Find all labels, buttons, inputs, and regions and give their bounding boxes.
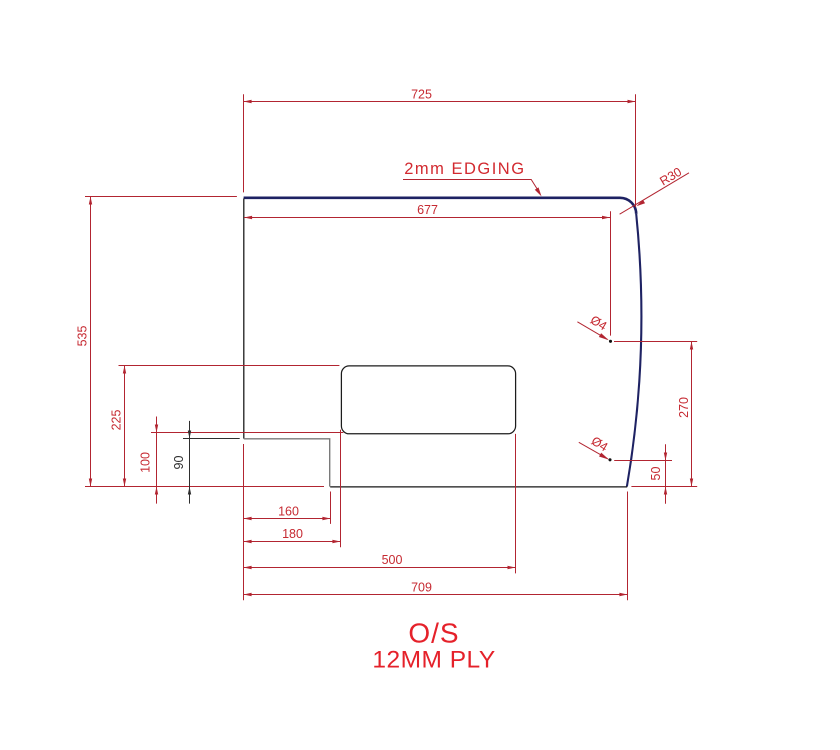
edging note arrow bbox=[535, 187, 542, 196]
dim 160 line bbox=[244, 518, 331, 520]
dim 677 line bbox=[244, 217, 610, 219]
edging note leader bbox=[403, 180, 540, 194]
dim 225 extension line top bbox=[119, 365, 340, 367]
dim 535 arrow up bbox=[89, 197, 92, 205]
dim 180 extension line right bbox=[340, 430, 342, 548]
svg-text:160: 160 bbox=[278, 504, 299, 518]
dim 160 arrow right bbox=[322, 517, 330, 520]
dim 709 arrow right bbox=[619, 593, 627, 596]
radius R30 leader bbox=[620, 173, 689, 214]
dim 270 extension line top bbox=[614, 341, 697, 343]
svg-text:100: 100 bbox=[139, 452, 153, 473]
svg-text:270: 270 bbox=[677, 397, 691, 418]
svg-text:O/S: O/S bbox=[408, 618, 459, 649]
dim 725 line bbox=[244, 101, 636, 103]
hole upper leader bbox=[577, 322, 607, 340]
svg-text:Ø4: Ø4 bbox=[589, 434, 611, 455]
dim 50 arrow bottom outside bbox=[664, 487, 667, 495]
dim 225 arrow down bbox=[123, 479, 126, 487]
dim 500 extension line right bbox=[515, 434, 517, 574]
rounded rectangle cutout bbox=[341, 366, 515, 434]
dim 500 line bbox=[244, 567, 516, 569]
dim 270 arrow down bbox=[690, 479, 693, 487]
svg-text:50: 50 bbox=[649, 467, 663, 481]
radius R30 arrow bbox=[636, 200, 645, 206]
dim 225 arrow up bbox=[123, 366, 126, 374]
dim 709 line bbox=[244, 594, 628, 596]
panel bottom edge bbox=[330, 486, 627, 488]
dim 90 arrow top outside bbox=[188, 431, 191, 439]
hole lower leader bbox=[579, 442, 608, 458]
hole lower leader arrow bbox=[599, 453, 609, 460]
dim 725 extension line right bbox=[635, 94, 637, 207]
dim 180 line bbox=[244, 541, 341, 543]
dim 725 extension line left bbox=[243, 94, 245, 192]
hole upper leader arrow bbox=[599, 333, 609, 340]
svg-text:R30: R30 bbox=[657, 165, 684, 189]
dim 100 line bbox=[156, 417, 158, 504]
hole lower center dot bbox=[608, 458, 611, 461]
svg-text:180: 180 bbox=[282, 527, 303, 541]
panel right curved edge bbox=[627, 214, 641, 487]
shared bottom extension line left bbox=[85, 486, 324, 488]
dim 50 extension line top bbox=[614, 460, 672, 462]
panel left edge bbox=[243, 199, 245, 439]
dim 100 extension line bbox=[151, 432, 343, 434]
svg-text:500: 500 bbox=[382, 553, 403, 567]
svg-text:535: 535 bbox=[76, 326, 90, 347]
dim 180 arrow right bbox=[332, 540, 340, 543]
dim 677 extension line right bbox=[610, 211, 612, 335]
svg-text:725: 725 bbox=[411, 87, 432, 101]
dim 100 arrow bottom outside bbox=[155, 487, 158, 495]
dim 709 arrow left bbox=[244, 593, 252, 596]
svg-text:677: 677 bbox=[417, 203, 438, 217]
dim 709 extension line right bbox=[627, 492, 629, 601]
dim 270 line bbox=[691, 342, 693, 487]
dim 725 arrow right bbox=[628, 100, 636, 103]
svg-text:2mm EDGING: 2mm EDGING bbox=[404, 160, 525, 178]
dim 180 arrow left bbox=[244, 540, 252, 543]
long left extension line below notch bbox=[243, 444, 245, 600]
dim 50 arrow top outside bbox=[664, 453, 667, 461]
dim 677 arrow right bbox=[602, 216, 610, 219]
panel top edge with 2mm edging bbox=[244, 198, 637, 214]
dim 90 extension line black bbox=[183, 438, 240, 440]
dim 90 arrow bottom outside bbox=[188, 487, 191, 495]
dim 535 arrow down bbox=[89, 479, 92, 487]
dim 50 line bbox=[665, 444, 667, 504]
dim 500 arrow right bbox=[508, 566, 516, 569]
dim 270 arrow up bbox=[690, 342, 693, 350]
dim 160 extension line right bbox=[330, 492, 332, 524]
svg-text:709: 709 bbox=[411, 580, 432, 594]
shared bottom extension line right bbox=[631, 486, 697, 488]
dim 677 arrow left bbox=[244, 216, 252, 219]
dim 535 extension line top bbox=[85, 196, 237, 198]
svg-text:12MM PLY: 12MM PLY bbox=[372, 647, 495, 674]
hole upper center dot bbox=[609, 340, 612, 343]
dim 500 arrow left bbox=[244, 566, 252, 569]
dim 100 arrow top outside bbox=[155, 425, 158, 433]
svg-text:90: 90 bbox=[172, 456, 186, 470]
dim 225 line bbox=[124, 366, 126, 487]
dim 90 line black bbox=[189, 421, 191, 504]
panel notch step bbox=[244, 439, 330, 487]
svg-text:225: 225 bbox=[109, 410, 123, 431]
dim 535 line bbox=[90, 197, 92, 487]
dim 725 arrow left bbox=[244, 100, 252, 103]
dim 160 arrow left bbox=[244, 517, 252, 520]
